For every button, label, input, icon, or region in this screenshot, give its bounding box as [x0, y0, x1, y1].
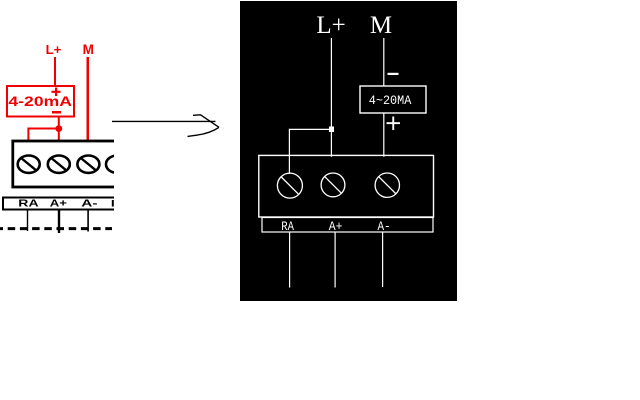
- svg-text:A+: A+: [329, 219, 343, 234]
- wire below RA: [27, 210, 28, 232]
- wire box to terminal A-: [383, 113, 384, 157]
- screw terminal 4 (cut): [106, 156, 128, 173]
- wire M down to current-source box: [383, 38, 384, 86]
- screw terminal A+ (panel): [321, 173, 345, 197]
- screw terminal A- (panel): [375, 173, 399, 197]
- svg-text:L+: L+: [46, 43, 62, 57]
- wire below RA (panel): [289, 232, 290, 288]
- screw terminal 1: [18, 156, 40, 173]
- wire below A+ (panel): [335, 232, 336, 288]
- screw terminal RA (panel): [277, 173, 302, 198]
- svg-text:A-: A-: [378, 219, 391, 234]
- plus polarity mark: [387, 122, 401, 124]
- screw terminal 3: [77, 156, 99, 173]
- wire L+ down to terminal A+: [331, 38, 332, 157]
- svg-text:L+: L+: [316, 12, 345, 39]
- label strip (panel): [262, 218, 433, 233]
- wire M to A- terminal: [87, 57, 90, 141]
- wire L+ to transmitter: [54, 57, 56, 86]
- minus terminal mark: [52, 111, 61, 114]
- junction dot (panel): [329, 127, 334, 133]
- label strip (left): [3, 198, 125, 210]
- svg-text:M: M: [83, 42, 94, 57]
- wire junction to A+ terminal: [58, 130, 60, 141]
- current source box 4~20MA: [360, 86, 426, 113]
- wire junction branch to RA terminal: [28, 129, 58, 142]
- wire below A+: [58, 210, 60, 234]
- svg-text:4~20MA: 4~20MA: [369, 93, 412, 108]
- panel background: [240, 1, 457, 301]
- screw terminal 2: [48, 156, 70, 173]
- minus polarity mark: [388, 73, 399, 75]
- arrow head: [193, 115, 219, 128]
- terminal block (left): [13, 141, 125, 187]
- partial cut letter: [112, 200, 114, 207]
- wire transmitter to junction: [58, 117, 60, 127]
- svg-text:A+: A+: [50, 199, 67, 210]
- svg-text:RA: RA: [18, 199, 38, 210]
- dashed bus line: [0, 227, 112, 230]
- arrow shaft: [112, 120, 216, 122]
- transmitter box 4-20mA: [7, 86, 74, 117]
- svg-text:4-20mA: 4-20mA: [8, 93, 72, 109]
- svg-text:A-: A-: [81, 199, 97, 210]
- svg-text:M: M: [370, 12, 392, 39]
- wire junction branch to terminal RA: [289, 129, 331, 174]
- plus terminal mark: [52, 91, 61, 93]
- svg-text:RA: RA: [281, 219, 294, 234]
- terminal block (panel): [259, 155, 434, 217]
- wire below A-: [87, 210, 89, 232]
- wire below A- (panel): [382, 232, 383, 287]
- junction dot: [55, 125, 62, 132]
